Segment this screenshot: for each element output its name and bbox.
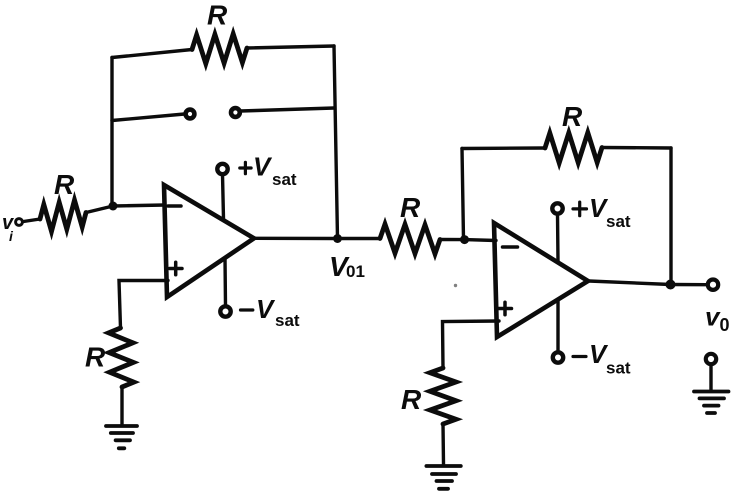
wire V01 to R3 <box>338 237 381 240</box>
svg-text:01: 01 <box>346 262 365 281</box>
wire R1 to node A <box>86 206 113 213</box>
op-amp U2 <box>494 223 588 337</box>
+Vsat terminal U1 <box>217 164 227 174</box>
minus sign U2 <box>503 245 518 249</box>
ground (left) <box>106 426 137 448</box>
wire feedback-1 left vertical <box>110 58 113 207</box>
minus sign U1 <box>168 204 181 208</box>
-Vsat terminal U2 <box>553 352 563 362</box>
ground (output) <box>694 392 729 414</box>
svg-text:sat: sat <box>606 212 631 231</box>
wire U1 output to node V01 <box>255 237 338 241</box>
wire R3 to node B <box>440 238 465 242</box>
svg-text:R: R <box>54 169 75 200</box>
wire R2 to top-right corner <box>247 46 334 48</box>
label R (R3) <box>400 192 421 223</box>
wire top to R4 <box>462 146 545 150</box>
label vi <box>2 212 15 244</box>
wire lower terminal to ground <box>709 366 712 391</box>
svg-text:sat: sat <box>606 359 631 378</box>
svg-text:V: V <box>256 294 276 324</box>
label R (R6) <box>401 384 422 415</box>
svg-text:sat: sat <box>275 311 300 330</box>
svg-text:R: R <box>562 101 583 132</box>
label +Vsat (U1) <box>240 162 251 173</box>
wire feedback-1 right vertical <box>334 46 338 239</box>
resistor R5 <box>109 328 134 387</box>
wire node B to U2 inverting input <box>465 238 497 242</box>
svg-text:R: R <box>207 0 228 31</box>
resistor R6 <box>430 368 456 424</box>
terminal circle right <box>231 108 240 117</box>
wire +Vsat to U2 <box>556 214 560 261</box>
label V01 <box>329 251 365 282</box>
input terminal vi <box>16 219 23 226</box>
node B <box>460 235 469 244</box>
wire feedback-2 left vertical <box>462 149 464 240</box>
wire top-left to R2 <box>112 50 192 58</box>
wire node A to U1 inverting input <box>113 205 165 206</box>
speck <box>454 284 457 287</box>
wire jumper right <box>241 108 335 111</box>
wire vi to R1 <box>24 219 41 222</box>
wire jumper left <box>112 114 185 121</box>
plus sign U1 <box>170 262 183 275</box>
lower output terminal <box>706 354 716 364</box>
wire +Vsat to U1 <box>223 175 224 220</box>
label -Vsat (U2) <box>573 355 586 358</box>
ground (middle) <box>426 466 460 489</box>
label R (R2) <box>207 0 228 31</box>
wire node C to output terminal <box>671 283 707 287</box>
output terminal vo <box>708 280 718 290</box>
label R (R4) <box>562 101 583 132</box>
label vo <box>705 302 730 336</box>
svg-text:R: R <box>401 384 422 415</box>
-Vsat terminal U1 <box>220 306 230 316</box>
resistor R3 <box>380 224 440 254</box>
node C <box>666 280 676 290</box>
label +Vsat (U2) <box>573 202 587 216</box>
node V01 <box>333 234 342 243</box>
svg-text:V: V <box>253 152 273 182</box>
wire U2 to -Vsat <box>556 301 559 352</box>
label -Vsat (U1) <box>241 308 253 311</box>
svg-text:sat: sat <box>272 170 297 189</box>
terminal circle left <box>186 110 195 119</box>
resistor R2 <box>192 34 247 64</box>
label R (R5) <box>85 342 106 373</box>
plus sign U2 <box>499 302 512 315</box>
wire U2 + input <box>443 321 500 368</box>
resistor R4 <box>545 133 602 163</box>
wire R6 to ground <box>441 424 445 464</box>
wire R5 to ground <box>120 387 123 424</box>
resistor R1 <box>40 200 86 231</box>
wire U1 to -Vsat <box>223 258 227 306</box>
+Vsat terminal U2 <box>552 203 562 213</box>
wire R4 to top-right corner <box>602 146 671 150</box>
svg-text:R: R <box>85 342 106 373</box>
node A <box>109 202 118 211</box>
op-amp U1 <box>164 185 254 297</box>
wire U1 + input <box>119 281 168 329</box>
label R (R1) <box>54 169 75 200</box>
wire U2 output to node C <box>589 281 671 285</box>
svg-text:R: R <box>400 192 421 223</box>
svg-text:0: 0 <box>720 315 730 335</box>
wire feedback-2 right vertical <box>669 148 672 285</box>
